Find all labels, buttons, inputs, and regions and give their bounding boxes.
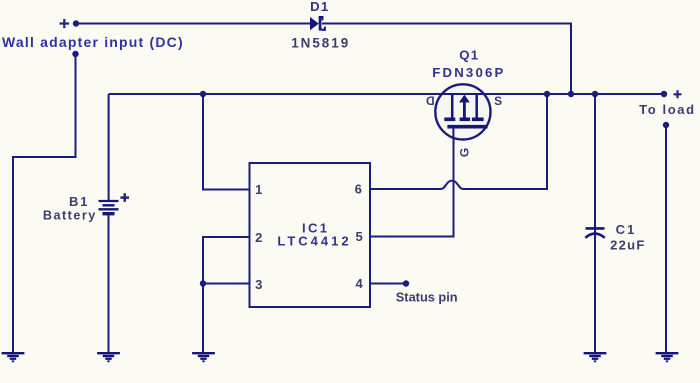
svg-text:D1: D1 [310, 0, 329, 14]
plus battery [120, 193, 129, 202]
node bus-C1 junction [592, 91, 598, 97]
svg-text:C1: C1 [616, 222, 637, 237]
svg-text:Q1: Q1 [459, 48, 479, 63]
wire battery bottom to ground [108, 215, 110, 352]
svg-text:5: 5 [355, 229, 362, 244]
svg-text:D: D [426, 94, 435, 108]
ground (load) [656, 353, 679, 361]
wire pin2 down to ground [203, 237, 250, 352]
svg-text:S: S [494, 94, 502, 108]
mosfet internals [444, 95, 487, 138]
plus load [674, 90, 682, 98]
svg-text:6: 6 [355, 181, 362, 196]
node wall adapter + [73, 20, 79, 26]
battery B1 plates [99, 201, 119, 214]
svg-text:G: G [457, 148, 471, 157]
capacitor C1 [585, 228, 604, 237]
svg-text:Wall adapter input (DC): Wall adapter input (DC) [2, 34, 184, 50]
node bus-diode junction [568, 91, 574, 97]
svg-text:22uF: 22uF [610, 237, 646, 252]
wire diode to corner and down to bus [322, 24, 571, 95]
diode D1 [310, 16, 326, 31]
node load top [663, 122, 669, 128]
svg-text:To load: To load [639, 102, 695, 117]
mosfet Q1 circle [435, 84, 490, 139]
svg-text:LTC4412: LTC4412 [277, 234, 351, 249]
node bus end [661, 91, 667, 97]
node bus-pin6 junction [544, 91, 550, 97]
wire pin6 with hop over gate wire [370, 94, 547, 189]
svg-text:FDN306P: FDN306P [432, 65, 505, 80]
wire C1 top [594, 94, 596, 352]
ground (battery) [97, 353, 120, 361]
wire pin3 stub [203, 283, 250, 285]
svg-text:1N5819: 1N5819 [291, 36, 350, 51]
svg-text:1: 1 [255, 182, 262, 197]
wire battery top [108, 94, 110, 200]
node wall adapter lower [72, 51, 78, 57]
ground (IC) [192, 353, 215, 361]
plus wall adapter [60, 19, 70, 28]
wire top adapter to diode [76, 23, 310, 25]
node bus-pin1 junction [200, 91, 206, 97]
svg-text:2: 2 [255, 230, 262, 245]
svg-text:B1: B1 [69, 194, 89, 209]
wire bus to pin1 [203, 94, 250, 190]
wire load drop to ground [665, 125, 667, 352]
svg-text:Status pin: Status pin [396, 290, 458, 305]
wire pin4 stub [370, 283, 404, 285]
node pin3 junction [200, 280, 206, 286]
ground (adapter) [2, 353, 25, 361]
svg-text:Battery: Battery [43, 209, 97, 223]
svg-text:3: 3 [255, 277, 262, 292]
mosfet arrow head [459, 95, 470, 103]
wire bus through mosfet [435, 93, 491, 95]
node status pin [403, 280, 409, 286]
IC IC1 box [250, 163, 371, 307]
wire pin5 to gate [370, 130, 454, 237]
wire main bus [109, 93, 664, 95]
ground (C1) [584, 353, 607, 361]
svg-text:4: 4 [355, 276, 363, 291]
wire adapter drop to ground [13, 54, 76, 352]
